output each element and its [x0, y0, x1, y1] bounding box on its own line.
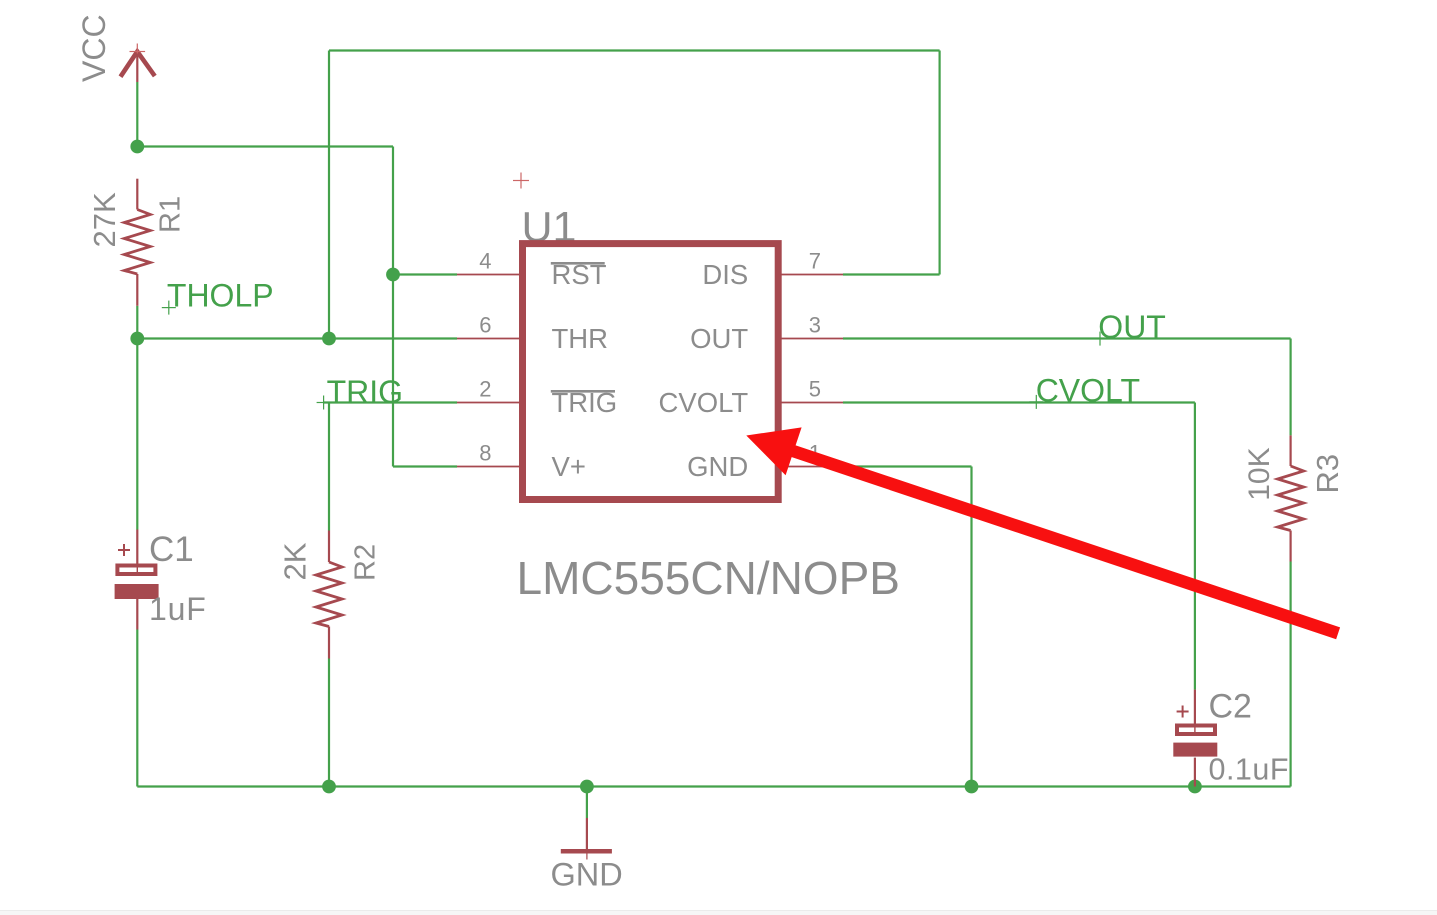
junction node THR-R1-C1 [130, 332, 144, 346]
pin RST overline [551, 262, 605, 265]
wire OUT down to R3 [1289, 339, 1291, 436]
pin 2 stub [457, 402, 520, 404]
svg-text:THR: THR [552, 323, 609, 354]
pin 8 stub [457, 466, 520, 468]
pin 4 stub [457, 274, 520, 276]
junction node RST-V+ column [386, 268, 400, 282]
wire bottom ground rail [137, 785, 1290, 787]
svg-text:OUT: OUT [690, 323, 748, 354]
wire left vertical from top to THR row [328, 51, 330, 339]
svg-text:VCC: VCC [76, 14, 112, 82]
wire THR row [137, 337, 457, 339]
svg-text:27K: 27K [87, 192, 122, 247]
ground symbol GND [561, 818, 612, 860]
wire C1 to bottom rail [136, 630, 138, 787]
pin TRIG overline [551, 390, 615, 393]
wire pin 1 GND row [843, 465, 972, 467]
resistor R2 [316, 531, 342, 659]
svg-text:GND: GND [551, 857, 623, 893]
svg-text:10K: 10K [1243, 447, 1276, 500]
wire TRIG to R2 top [328, 403, 330, 531]
capacitor C2 [1173, 690, 1217, 787]
wire GND pin down to rail [970, 467, 972, 787]
wire top horizontal DIS-THR [329, 49, 940, 51]
pin 7 stub [781, 274, 843, 276]
wire THR node down to C1 [136, 339, 138, 530]
svg-text:1uF: 1uF [149, 591, 207, 627]
junction node rail-pin1 [965, 780, 979, 794]
svg-text:5: 5 [809, 377, 821, 402]
svg-text:8: 8 [479, 441, 491, 466]
svg-text:4: 4 [479, 249, 491, 274]
svg-text:CVOLT: CVOLT [1036, 373, 1140, 409]
wire rail to GND symbol [586, 787, 588, 819]
svg-text:CVOLT: CVOLT [659, 387, 749, 418]
capacitor C1 [115, 530, 159, 630]
wire to pin 7 [843, 273, 940, 275]
wire RST column vertical [392, 147, 394, 467]
svg-text:V+: V+ [552, 451, 586, 482]
svg-text:3: 3 [809, 313, 821, 338]
junction node rail-R2 [322, 780, 336, 794]
svg-text:C2: C2 [1209, 688, 1252, 726]
wire OUT row [843, 337, 1291, 339]
pin 6 stub [457, 338, 520, 340]
annotation red arrow [746, 427, 1338, 633]
svg-text:GND: GND [687, 451, 748, 482]
svg-text:OUT: OUT [1098, 309, 1166, 345]
svg-text:R3: R3 [1310, 454, 1345, 494]
svg-text:2K: 2K [278, 542, 313, 580]
svg-text:LMC555CN/NOPB: LMC555CN/NOPB [517, 552, 900, 604]
junction node rail-C2 [1188, 780, 1202, 794]
svg-text:0.1uF: 0.1uF [1209, 752, 1290, 786]
op-amp U1 body box [523, 244, 779, 500]
resistor R3 [1278, 435, 1304, 561]
svg-text:2: 2 [479, 377, 491, 402]
wire right vertical from top to DIS row [938, 51, 940, 275]
wire to pin 4 [393, 273, 457, 275]
svg-text:R1: R1 [155, 196, 187, 233]
pin 1 stub [781, 466, 843, 468]
junction node THR-DIS column [322, 332, 336, 346]
svg-text:TRIG: TRIG [327, 374, 403, 410]
power symbol VCC [121, 44, 155, 83]
bottom scrollbar strip [0, 910, 1437, 915]
svg-text:THOLP: THOLP [167, 278, 274, 314]
label origin cross CVOLT [1029, 395, 1043, 409]
pin 5 stub [781, 402, 843, 404]
svg-text:6: 6 [479, 313, 491, 338]
label origin cross TRIG [317, 396, 331, 410]
wire CVOLT row [843, 401, 1195, 403]
svg-text:7: 7 [809, 249, 821, 274]
wire R2 bottom to rail [328, 659, 330, 787]
junction node VCC-R1 [130, 140, 144, 154]
wire R3 bottom to rail [1289, 562, 1291, 787]
wire VCC node to RST column [137, 145, 393, 147]
IC U1 origin cross [513, 173, 529, 189]
wire VCC stem [136, 82, 138, 147]
svg-text:C1: C1 [149, 530, 194, 569]
junction node rail-GND [580, 780, 594, 794]
wire R1 bottom to THR node [136, 306, 138, 339]
resistor R1 [124, 179, 150, 306]
wire CVOLT down to C2 [1194, 403, 1196, 690]
label origin cross THOLP [162, 301, 176, 315]
svg-text:R2: R2 [350, 544, 382, 581]
svg-text:DIS: DIS [702, 259, 748, 290]
pin 3 stub [781, 338, 843, 340]
wire TRIG row [324, 401, 457, 403]
wire to pin 8 [393, 465, 457, 467]
label origin cross OUT [1093, 332, 1107, 346]
